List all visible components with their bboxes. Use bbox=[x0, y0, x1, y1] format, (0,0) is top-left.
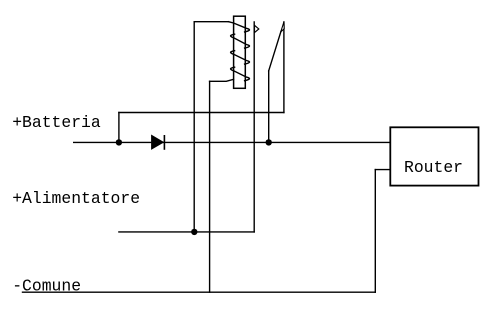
wire coil bottom lead bbox=[210, 79, 234, 81]
wire relay NO fixed contact terminal vertical bbox=[253, 22, 255, 232]
svg-text:+Alimentatore: +Alimentatore bbox=[12, 189, 140, 208]
wire coil top lead horizontal bbox=[194, 21, 228, 23]
relay K1 armature blade bbox=[269, 31, 281, 71]
svg-text:+Batteria: +Batteria bbox=[12, 113, 101, 132]
wire router return vertical bbox=[374, 170, 376, 293]
router box U1 bbox=[390, 127, 478, 185]
node battery junction dot bbox=[116, 139, 122, 145]
wire -Comune horizontal rail y=292 bbox=[23, 291, 376, 293]
wire +Alimentatore horizontal rail y=232 bbox=[119, 231, 254, 233]
wire riser from battery node up bbox=[118, 113, 120, 143]
relay K1 NO contact marker bbox=[255, 25, 259, 32]
relay K1 coil core bbox=[234, 16, 246, 88]
wire router return stub bbox=[375, 169, 390, 171]
wire relay NC fixed contact terminal vertical bbox=[283, 22, 285, 113]
wire top link to relay fixed contact bbox=[119, 112, 284, 114]
diode D1 cathode bar bbox=[163, 136, 165, 149]
svg-text:-Comune: -Comune bbox=[12, 277, 81, 296]
node armature junction dot bbox=[266, 139, 272, 145]
wire relay armature vertical to diode cathode node bbox=[268, 71, 270, 143]
relay K1 coil winding bbox=[229, 22, 250, 81]
diode D1 anode triangle bbox=[152, 135, 164, 149]
wire coil top lead vertical drop to +Alimentatore bbox=[193, 22, 195, 232]
wire +Batteria horizontal rail y=142 bbox=[74, 141, 391, 143]
wire coil bottom lead vertical drop to -Comune bbox=[209, 81, 211, 292]
relay K1 armature arrowhead bbox=[281, 22, 285, 32]
node coil/alimentatore junction dot bbox=[191, 229, 197, 235]
svg-text:Router: Router bbox=[404, 158, 463, 177]
